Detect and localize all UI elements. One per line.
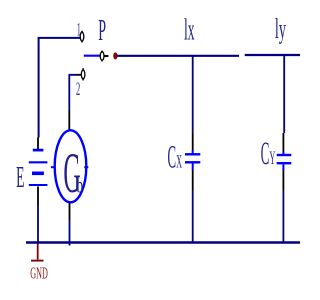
galvanometer bottom lead (black)	[69, 202, 71, 220]
svg-text:1: 1	[77, 20, 81, 41]
svg-text:b: b	[77, 173, 83, 198]
node 2 lead tick (black)	[77, 74, 81, 76]
battery E bottom lead (black)	[37, 187, 39, 206]
wire bottom rail	[26, 241, 300, 243]
switch P blade (blue)	[84, 55, 101, 57]
galvanometer G ellipse	[55, 130, 87, 202]
label 1	[77, 20, 81, 41]
svg-text:lx: lx	[184, 14, 195, 48]
label b subscript	[77, 173, 83, 198]
svg-text:E: E	[16, 161, 24, 195]
svg-text:X: X	[176, 152, 182, 173]
wire Cx top drop	[192, 56, 194, 133]
label Cx	[168, 140, 183, 176]
svg-text:ly: ly	[275, 13, 286, 45]
capacitor Cy	[277, 152, 292, 171]
label Cy	[261, 137, 276, 173]
capacitor Cx	[185, 150, 200, 170]
svg-text:Y: Y	[270, 149, 276, 170]
wire top middle to lx	[118, 55, 240, 57]
capacitor Cx bottom lead (black)	[192, 170, 194, 190]
wire Cy top drop	[283, 55, 285, 133]
capacitor Cx top lead (black)	[192, 133, 194, 151]
svg-text:GND: GND	[30, 263, 48, 282]
label ly	[275, 13, 286, 45]
wire Cx to bottom rail	[192, 190, 194, 243]
svg-text:P: P	[98, 14, 106, 48]
battery E top wire (navy)	[37, 138, 39, 150]
label E	[16, 161, 24, 195]
switch P pole terminal	[100, 51, 104, 62]
galvanometer side pin stubs	[51, 166, 88, 168]
label G	[63, 142, 80, 205]
svg-text:C: C	[261, 137, 270, 173]
wire top-left horizontal from node 1 to left rail	[39, 38, 81, 138]
label P	[98, 14, 106, 48]
node 1 terminal	[80, 31, 84, 43]
wire Cy to bottom rail	[282, 190, 284, 243]
wire top right ly segment	[245, 54, 300, 56]
capacitor Cy bottom lead (black)	[282, 170, 284, 190]
wire node 2 stub	[69, 75, 78, 110]
wire battery to bottom rail	[37, 206, 39, 244]
node 2 terminal	[81, 68, 85, 80]
svg-text:C: C	[168, 140, 177, 176]
label GND	[30, 263, 48, 282]
junction dot (maroon)	[113, 52, 117, 59]
wire galvanometer top lead (black)	[68, 110, 70, 130]
svg-text:2: 2	[76, 80, 80, 101]
switch pole lead tick (black)	[104, 55, 108, 57]
label lx	[184, 14, 195, 48]
label 2	[76, 80, 80, 101]
capacitor Cy top lead (black)	[282, 133, 284, 152]
battery E plates	[29, 150, 48, 185]
ground	[31, 244, 44, 261]
wire galvanometer to bottom rail	[69, 220, 71, 246]
